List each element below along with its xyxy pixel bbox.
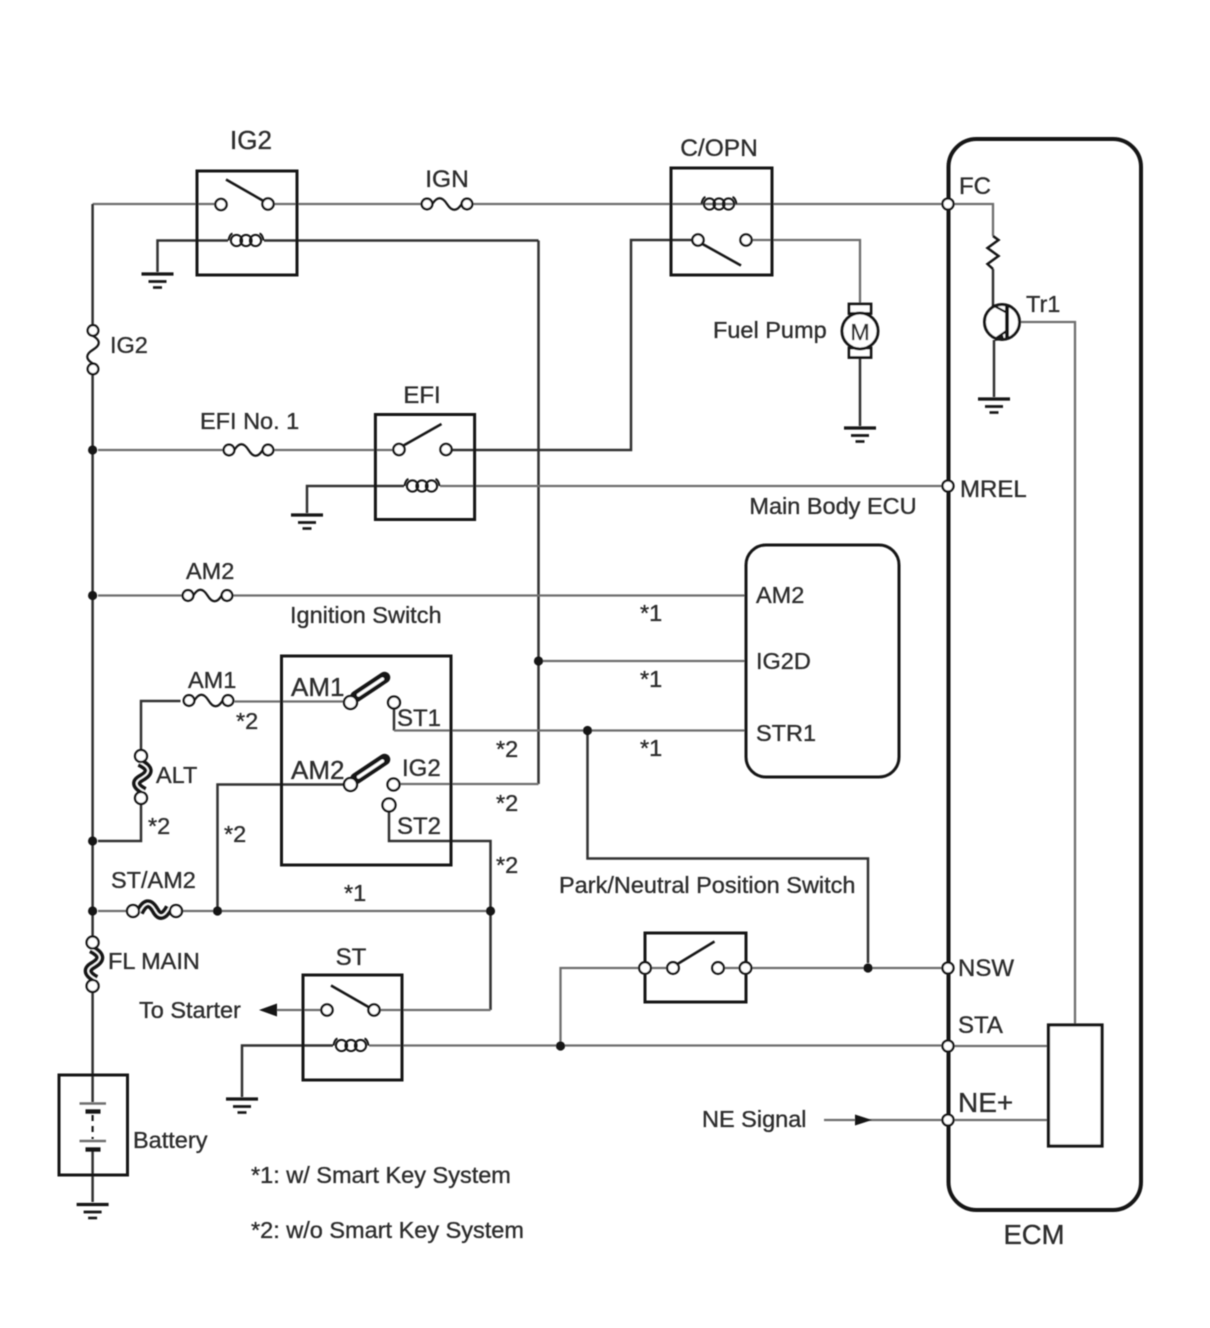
relay IG2 switch: [215, 180, 273, 211]
svg-text:*1: *1: [640, 666, 662, 692]
relay ST switch: [321, 986, 379, 1016]
svg-text:*2: *2: [236, 708, 258, 734]
wire ST2 terminal to *1 row: [389, 812, 491, 912]
svg-text:*2: *2: [496, 852, 518, 878]
svg-text:Fuel Pump: Fuel Pump: [713, 317, 827, 343]
ground under battery: [77, 1205, 109, 1219]
wire EFI relay switch to C/OPN switch: [452, 240, 693, 450]
svg-text:IG2: IG2: [402, 755, 441, 782]
svg-text:Main Body ECU: Main Body ECU: [749, 493, 916, 519]
svg-text:ST1: ST1: [397, 705, 441, 732]
svg-text:FC: FC: [959, 173, 991, 200]
svg-text:AM1: AM1: [188, 667, 236, 693]
svg-text:AM2: AM2: [291, 755, 344, 785]
svg-text:Park/Neutral Position Switch: Park/Neutral Position Switch: [559, 872, 855, 898]
wire STA pin to ECM internal block: [953, 1045, 1049, 1047]
wire ignition switch AM2 terminal to *1 row: [218, 785, 345, 912]
relay IG2 coil: [229, 234, 264, 247]
svg-text:NE Signal: NE Signal: [702, 1106, 807, 1132]
fuse AM2: [183, 590, 233, 602]
wire AM1 fuse to ignition switch AM1: [235, 700, 345, 702]
wire ST relay coil left lead to ground: [242, 1046, 333, 1098]
wire ST relay switch up to *1 row: [489, 911, 492, 1010]
wire Tr1 base to ECM internal block: [1010, 322, 1076, 1026]
svg-text:NE+: NE+: [958, 1087, 1013, 1118]
battery: [59, 1075, 128, 1175]
fuse IGN: [422, 198, 473, 210]
svg-text:*1: w/ Smart Key System: *1: w/ Smart Key System: [251, 1162, 511, 1188]
wire resistor to transistor collector: [992, 269, 995, 306]
ground under Tr1 emitter: [978, 399, 1010, 413]
pin STA: [943, 1041, 954, 1052]
ignition switch ST1 terminal: [388, 697, 400, 709]
wire AM2 fuse to Main Body ECU AM2: [233, 594, 747, 596]
relay ST coil: [334, 1039, 369, 1052]
wire NE+ pin to ECM internal block: [953, 1119, 1049, 1121]
svg-text:EFI: EFI: [403, 382, 440, 409]
wire AM1 fuse to ALT branch: [141, 701, 181, 750]
wire fuel pump to ground: [859, 358, 862, 426]
relay C/OPN coil (inline on FC feed): [702, 197, 737, 210]
pin NE+: [943, 1115, 954, 1126]
wire *1 row left of ST/AM2 link: [98, 910, 128, 912]
fuse IG2: [87, 325, 99, 374]
svg-text:*2: w/o Smart Key System: *2: w/o Smart Key System: [251, 1217, 524, 1243]
ignition switch AM1 terminal + key lever: [344, 678, 385, 710]
ECM box: [949, 139, 1142, 1210]
wire park/neutral inner link left: [651, 967, 668, 969]
pin FC: [943, 199, 954, 210]
svg-text:AM2: AM2: [756, 582, 804, 608]
pin MREL: [943, 481, 954, 492]
junction node (92.6,595.5): [88, 591, 97, 600]
ground under ST relay coil: [226, 1099, 258, 1113]
svg-text:STA: STA: [958, 1012, 1003, 1039]
junction node (92.6,450): [88, 445, 97, 454]
arrow to starter: [259, 1004, 277, 1017]
relay C/OPN switch: [692, 234, 751, 265]
wire IG2 relay coil to vertical x538: [264, 239, 539, 242]
svg-text:*2: *2: [496, 736, 518, 762]
svg-text:IGN: IGN: [425, 166, 469, 193]
wire main battery bus vertical: [91, 204, 94, 325]
svg-text:*1: *1: [344, 880, 366, 906]
fusible link FL MAIN: [87, 937, 100, 993]
svg-text:Ignition Switch: Ignition Switch: [290, 602, 442, 628]
svg-text:MREL: MREL: [960, 476, 1027, 503]
ground under fuel pump: [844, 428, 876, 442]
wire STR1 junction jog down to NSW row: [588, 731, 869, 964]
fuse EFI No. 1: [224, 444, 274, 456]
wire IG2 terminal row (ignition switch to x538): [400, 783, 539, 785]
svg-text:*1: *1: [640, 735, 662, 761]
svg-text:M: M: [850, 319, 870, 345]
junction node (490.5,911): [486, 906, 495, 915]
junction node (217.5,911): [213, 906, 222, 915]
svg-text:ST/AM2: ST/AM2: [111, 867, 196, 893]
ground under EFI relay coil: [291, 515, 323, 529]
Main Body ECU box: [746, 545, 899, 777]
svg-text:ST2: ST2: [397, 813, 441, 840]
relay EFI switch: [393, 424, 451, 455]
svg-text:AM2: AM2: [186, 558, 234, 584]
wire FC to resistor: [953, 204, 993, 236]
ignition switch AM2 terminal + key lever: [344, 760, 385, 792]
svg-text:ECM: ECM: [1003, 1219, 1064, 1250]
svg-text:*2: *2: [224, 821, 246, 847]
junction node (92.6,841): [88, 836, 97, 845]
svg-text:EFI No. 1: EFI No. 1: [200, 408, 299, 434]
svg-text:Battery: Battery: [133, 1127, 208, 1153]
svg-text:*1: *1: [640, 600, 662, 626]
wire ST relay coil to STA (row through junction): [369, 1044, 943, 1046]
wire AM2 fuse row: [98, 594, 183, 596]
fuse AM1: [184, 695, 234, 707]
junction node (92.6,911): [88, 906, 97, 915]
svg-text:ST: ST: [336, 944, 367, 971]
wire *1 row (ST/AM2 link to ST2 branch): [182, 910, 491, 912]
relay C/OPN box: [671, 168, 772, 275]
wire ST1 terminal stub: [393, 709, 396, 731]
ignition switch box: [282, 656, 452, 865]
wire park/neutral switch to NSW: [752, 967, 944, 969]
svg-text:AM1: AM1: [291, 672, 344, 702]
park/neutral position switch contacts: [639, 942, 751, 974]
ignition switch IG2 terminal: [388, 779, 400, 791]
wire Tr1 emitter to ground: [993, 340, 996, 397]
wire park/neutral inner link right: [724, 967, 741, 969]
wire IG2 relay to IGN fuse: [274, 203, 422, 205]
fusible link ST/AM2: [127, 904, 182, 917]
ignition switch ST2 terminal: [383, 799, 396, 812]
arrow NE signal: [855, 1115, 872, 1126]
junction node (587.5,730.5): [583, 726, 592, 735]
ground under IG2 relay coil: [142, 274, 174, 288]
wire vertical x538 (IG2 coil to ignition switch IG2): [537, 241, 540, 785]
wire battery negative to ground: [91, 1151, 94, 1202]
svg-text:IG2: IG2: [110, 332, 148, 358]
wire IGN fuse to FC via C/OPN coil: [473, 203, 944, 205]
fusible link ALT: [135, 750, 148, 804]
wire EFI relay coil left lead to ground: [307, 486, 404, 513]
pin NSW: [943, 963, 954, 974]
relay IG2 box: [197, 171, 297, 275]
wire NE signal into NE+ pin: [824, 1119, 943, 1121]
wire EFI relay coil to MREL: [440, 485, 943, 487]
wire IG2D row to Main Body ECU: [539, 660, 747, 662]
junction node (560.5,1046): [556, 1041, 565, 1050]
wire ST relay switch to starter arrow: [276, 1009, 322, 1011]
wire battery bus to IG2 relay (top row): [93, 203, 216, 205]
ECM internal block: [1049, 1025, 1103, 1146]
junction node (868,968): [863, 963, 872, 972]
svg-text:To Starter: To Starter: [139, 997, 241, 1023]
fuel pump motor M: [842, 304, 878, 358]
svg-text:IG2D: IG2D: [756, 648, 811, 674]
svg-text:NSW: NSW: [958, 955, 1014, 982]
svg-text:*2: *2: [496, 790, 518, 816]
wire IG2 relay coil left lead to ground: [158, 241, 229, 273]
svg-text:IG2: IG2: [230, 125, 272, 155]
wire ST relay switch right lead: [380, 1009, 491, 1011]
svg-text:FL MAIN: FL MAIN: [108, 948, 200, 974]
park/neutral position switch box: [645, 933, 746, 1002]
svg-text:C/OPN: C/OPN: [680, 135, 758, 162]
resistor (inside ECM, FC line): [988, 236, 999, 269]
wire ALT fuse to battery bus: [98, 804, 141, 841]
svg-text:STR1: STR1: [756, 720, 816, 746]
wire park/neutral switch feed: [561, 968, 640, 1046]
wire EFI No.1 fuse row: [98, 449, 224, 451]
wire C/OPN switch to fuel pump: [752, 240, 861, 303]
svg-text:Tr1: Tr1: [1026, 291, 1060, 317]
relay EFI coil: [405, 479, 440, 492]
junction node (538.5,661): [534, 656, 543, 665]
svg-text:*2: *2: [148, 813, 170, 839]
svg-text:ALT: ALT: [156, 762, 197, 788]
wire ST1 row to Main Body ECU STR1: [394, 729, 746, 731]
transistor Q Tr1: [985, 305, 1020, 342]
relay ST box: [303, 975, 402, 1080]
relay EFI box: [375, 415, 474, 520]
